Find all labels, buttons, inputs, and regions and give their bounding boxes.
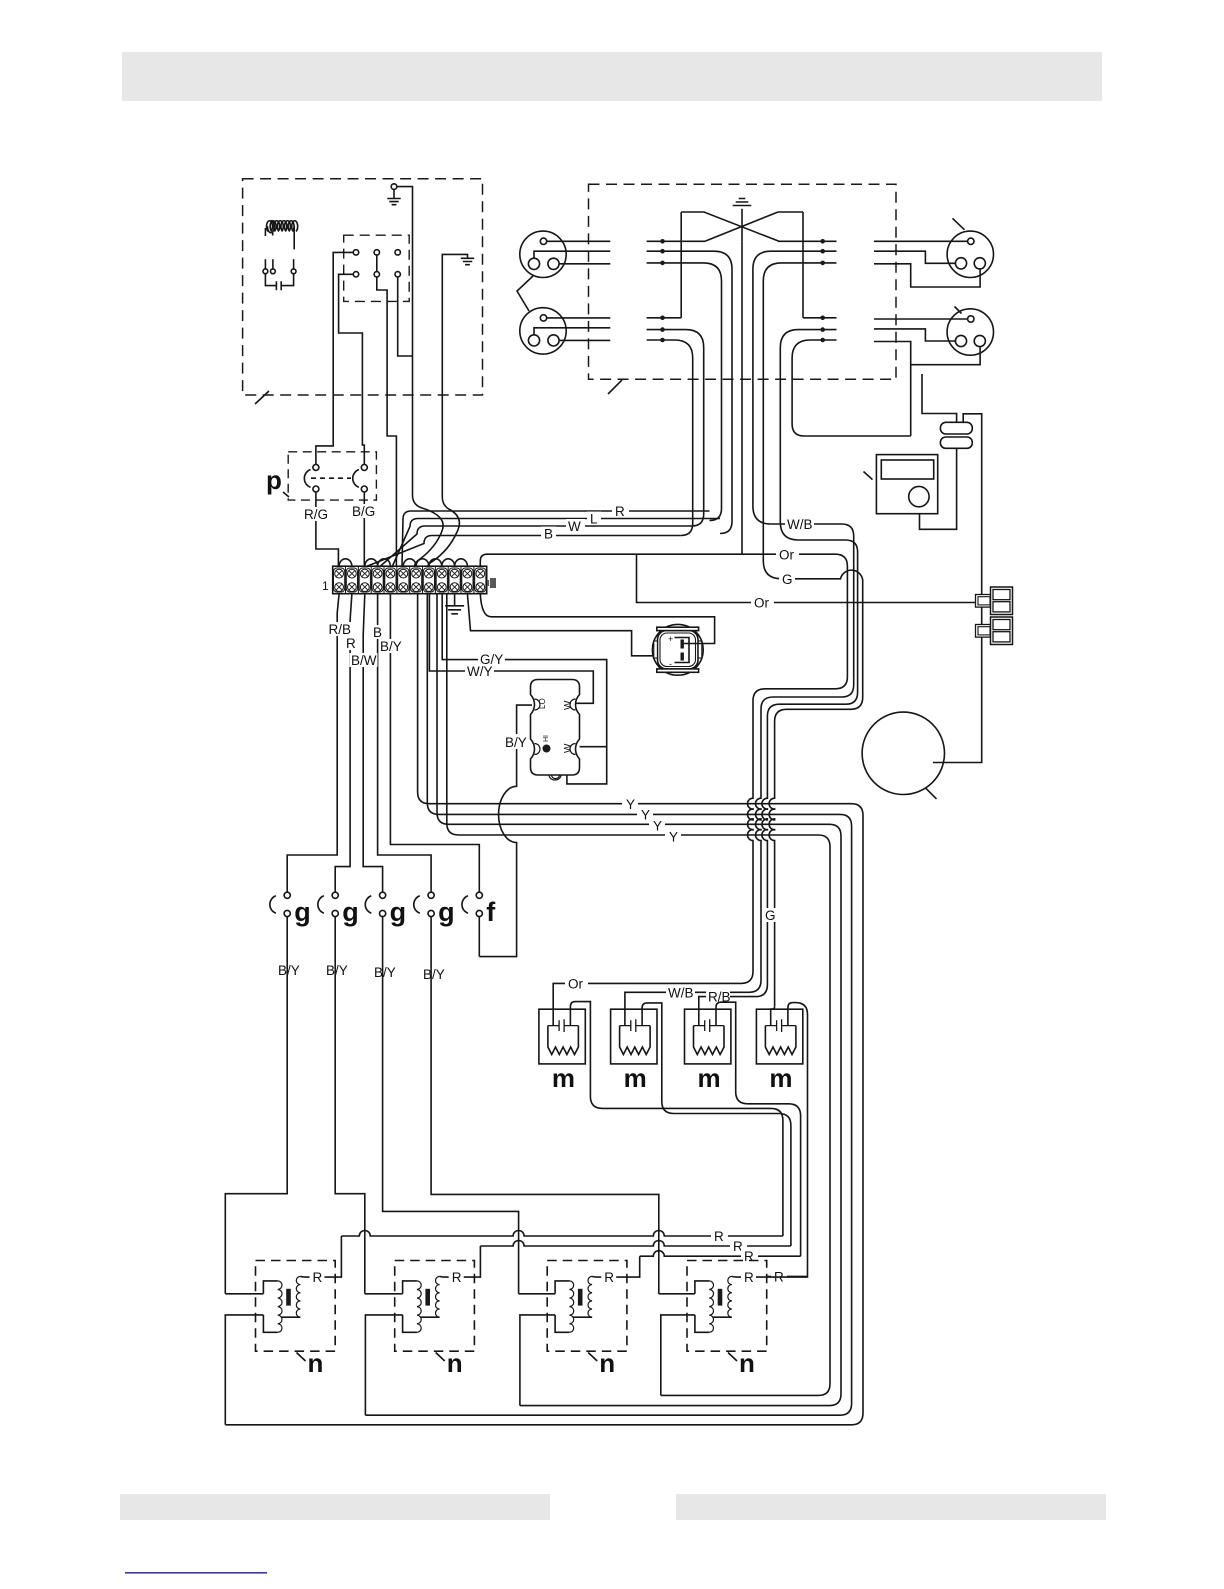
- relay coil right lead: [293, 226, 295, 249]
- wire W hook: [381, 526, 692, 566]
- wire W/B into m2: [625, 992, 749, 1025]
- wire Y1: [225, 594, 863, 1425]
- svg-text:+: +: [668, 634, 673, 644]
- wire G into m4: [771, 1006, 775, 1025]
- n1 R label: [310, 1270, 325, 1284]
- flasher pin lower-right: [570, 744, 576, 755]
- connector pin 6: [395, 272, 400, 277]
- svg-text:R: R: [615, 504, 625, 519]
- n2 lower entry to bottom rail: [365, 1315, 402, 1415]
- n3 secondary bottom lead: [573, 1316, 592, 1318]
- label B/Y flasher: [504, 734, 529, 749]
- pin right: [548, 335, 559, 346]
- wire sw2 down: [335, 917, 365, 1294]
- bowtie left vertical: [680, 212, 682, 318]
- n2 secondary bottom lead: [420, 1316, 439, 1318]
- tick p: [283, 492, 289, 497]
- junction dot: [660, 249, 665, 254]
- connector pin 3: [395, 250, 400, 255]
- wire t12 loop + Or feed to m1: [480, 554, 847, 983]
- wire right pin route: [874, 264, 980, 287]
- svg-text:G: G: [782, 572, 793, 587]
- svg-text:R: R: [604, 1270, 614, 1285]
- svg-text:n: n: [599, 1348, 615, 1378]
- igniter m3 cap: [694, 1019, 725, 1032]
- svg-text:Y: Y: [669, 830, 678, 845]
- wire p right to strip (B/G): [363, 492, 365, 566]
- terminal 9: [436, 568, 447, 592]
- pin right: [974, 258, 985, 269]
- wire row3 right curve: [763, 263, 836, 579]
- label R: [612, 504, 629, 517]
- n3 primary coil: [569, 1281, 573, 1332]
- wire sw1 down: [225, 917, 287, 1294]
- connector pin 1: [353, 250, 358, 255]
- svg-text:B: B: [373, 625, 382, 640]
- label R2: [730, 1239, 747, 1253]
- wire Or into m1: [553, 983, 741, 1025]
- wire into p right: [362, 395, 364, 464]
- n3 label tick: [588, 1353, 597, 1362]
- wire fuse1 to right rail and motor: [933, 414, 982, 763]
- strip jumper arc: [378, 559, 391, 566]
- svg-text:R/G: R/G: [304, 507, 328, 522]
- relay contact middle: [272, 259, 274, 269]
- igniter m1 box: [539, 1009, 585, 1064]
- label R/G: [303, 507, 330, 521]
- wire 412 down to strip: [413, 395, 444, 566]
- pin2-pin5 link: [376, 255, 378, 272]
- wire fuse2 to meter loop: [920, 448, 957, 529]
- pin right: [548, 258, 559, 269]
- n4 secondary coil: [728, 1276, 732, 1317]
- label W/Y: [465, 664, 494, 678]
- svg-text:m: m: [698, 1063, 721, 1093]
- ground right in box: [442, 254, 467, 395]
- battery jack side tabs: [654, 641, 658, 658]
- connector p dashed box: [288, 452, 376, 500]
- terminal 12: [475, 568, 486, 592]
- label W/B faint: [785, 517, 814, 531]
- wire left pin route: [534, 251, 610, 258]
- flasher pin upper-left: [535, 699, 541, 710]
- svg-text:Or: Or: [754, 596, 770, 611]
- wire flasher lower W tap: [580, 746, 607, 748]
- pin left: [955, 335, 966, 346]
- label Or dark: [751, 596, 774, 610]
- n3 R lead: [592, 1256, 640, 1277]
- svg-text:n: n: [739, 1348, 755, 1378]
- speaker connector circle: [520, 308, 566, 354]
- wire row6 right curve: [792, 340, 911, 436]
- label R2: [344, 636, 358, 650]
- wire pin4 feed: [339, 274, 363, 395]
- connector pin 5: [374, 272, 379, 277]
- wire row1 left: [647, 240, 682, 242]
- wire left pin route: [874, 329, 955, 341]
- label Or m1: [565, 977, 588, 991]
- wire left pin route: [534, 328, 610, 335]
- n4 secondary bottom lead: [713, 1316, 732, 1318]
- svg-text:B/Y: B/Y: [326, 963, 348, 978]
- svg-text:p: p: [266, 465, 282, 495]
- label G/Y: [478, 652, 505, 666]
- switch f: [462, 892, 496, 927]
- p dashed link: [311, 477, 351, 479]
- n1 lower entry to bottom rail: [225, 1315, 263, 1425]
- strip jumper arc: [416, 559, 429, 566]
- n1 upper entry: [225, 1293, 263, 1295]
- n4 primary leads: [695, 1281, 709, 1332]
- junction dot: [820, 239, 825, 244]
- n1 core bar l: [286, 1289, 291, 1306]
- igniter m2 cap: [620, 1019, 651, 1032]
- svg-text:Y: Y: [641, 808, 650, 823]
- svg-text:B/W: B/W: [351, 653, 377, 668]
- flasher label HI dot: [543, 745, 551, 753]
- wire m2 riser to R2: [642, 1003, 791, 1246]
- label B2: [371, 625, 384, 639]
- label B/W: [350, 653, 378, 667]
- wire row3 left curve down: [647, 263, 722, 521]
- wire fuse top link: [922, 374, 957, 422]
- svg-text:Or: Or: [779, 548, 795, 563]
- coil unit n3 dashed box: [547, 1261, 627, 1352]
- p left contact top: [313, 464, 319, 470]
- wire row2 right curve: [753, 251, 837, 524]
- connector tick: [955, 307, 962, 314]
- ground terminal circle top: [391, 184, 397, 190]
- speaker connector circle right: [947, 231, 993, 277]
- p right contact bottom: [361, 486, 367, 492]
- n2 R label: [449, 1270, 464, 1284]
- label Y3: [649, 818, 665, 832]
- wire L hook: [393, 519, 721, 567]
- wire jack plus loop: [480, 594, 714, 644]
- pin right: [974, 335, 985, 346]
- label R1: [711, 1229, 728, 1243]
- footer bar right: [676, 1494, 1106, 1520]
- label R3: [741, 1249, 758, 1263]
- n3 core bar l: [578, 1289, 583, 1306]
- terminal 10: [449, 568, 460, 592]
- battery jack terminal block: [675, 638, 690, 663]
- wire B strip to switch4: [378, 594, 432, 893]
- label B: [541, 527, 556, 540]
- wire row4 left: [647, 317, 682, 319]
- igniter m1 cup: [548, 1026, 579, 1055]
- svg-text:1: 1: [322, 579, 329, 593]
- motor tick: [926, 788, 937, 799]
- n1 label tick: [297, 1353, 306, 1362]
- bowtie right vertical: [802, 212, 804, 318]
- svg-text:W: W: [563, 743, 574, 753]
- relay capacitor: [265, 274, 293, 290]
- terminal 4: [372, 568, 383, 592]
- relay K coil: [267, 221, 298, 233]
- strip jumper arc: [403, 559, 416, 566]
- header bar: [122, 52, 1102, 101]
- terminal 2: [346, 568, 357, 592]
- terminal 3: [359, 568, 370, 592]
- svg-text:B/Y: B/Y: [278, 963, 300, 978]
- flasher body: [531, 680, 580, 776]
- pin left: [955, 258, 966, 269]
- svg-text:R: R: [744, 1249, 754, 1264]
- svg-text:f: f: [486, 897, 496, 927]
- n4 core bar l: [718, 1289, 723, 1306]
- wire Y2: [365, 594, 851, 1415]
- svg-text:B/Y: B/Y: [374, 965, 396, 980]
- n4 label tick: [728, 1353, 737, 1362]
- wire Y3: [437, 594, 841, 1406]
- svg-text:R: R: [714, 1229, 724, 1244]
- wire top pin out: [547, 240, 611, 242]
- igniter m3 cup: [694, 1026, 725, 1055]
- n2 R lead: [440, 1246, 481, 1277]
- connector pin 4: [353, 272, 358, 277]
- flasher pin upper-right: [570, 699, 576, 710]
- wire R4 n4 to m4: [767, 1275, 807, 1277]
- terminal plus bar: [681, 640, 684, 649]
- igniter m3 box: [685, 1009, 731, 1064]
- wire W/B bundle to m2: [749, 524, 854, 992]
- junction dot: [660, 338, 665, 343]
- label R/B: [328, 622, 352, 636]
- flasher bottom pin circle: [564, 768, 570, 774]
- strip jumper arc: [442, 559, 455, 566]
- strip right mark: [490, 578, 496, 588]
- svg-text:R: R: [452, 1270, 462, 1285]
- svg-text:Y: Y: [653, 819, 662, 834]
- n2 label tick: [436, 1353, 445, 1362]
- wire f down loop: [478, 917, 480, 957]
- flasher pin bottom: [549, 775, 561, 780]
- wire B hook: [368, 536, 681, 567]
- wire sw4 down: [431, 917, 659, 1294]
- meter tick: [864, 472, 873, 480]
- wire Y4: [447, 594, 830, 1396]
- battery jack bottom plate: [657, 669, 699, 672]
- hyperlink line bottom left: [125, 1572, 267, 1574]
- svg-text:W/B: W/B: [668, 986, 694, 1001]
- wire p left to strip (R/G): [316, 492, 339, 566]
- label R/B m3: [706, 990, 730, 1004]
- svg-text:W: W: [568, 519, 581, 534]
- wire row6 left curve down: [647, 340, 693, 536]
- crossover bowtie: [681, 212, 803, 241]
- wire R2 n2 to m2: [480, 1241, 791, 1247]
- n2 primary coil: [417, 1281, 421, 1332]
- terminal 5: [385, 568, 396, 592]
- label G faint: [779, 572, 795, 586]
- meter knob: [909, 486, 929, 506]
- svg-text:R: R: [744, 1270, 754, 1285]
- center vertical from bowtie: [741, 241, 743, 554]
- control unit dashed box: [243, 179, 483, 395]
- svg-text:n: n: [308, 1348, 324, 1378]
- svg-text:B/Y: B/Y: [505, 735, 527, 750]
- svg-text:g: g: [390, 897, 407, 927]
- terminal 8: [423, 568, 434, 592]
- terminal 6: [398, 568, 409, 592]
- strip jumper arc: [455, 559, 468, 566]
- callout tick junction box: [608, 380, 622, 394]
- connector tick: [953, 218, 965, 230]
- footer bar left: [120, 1494, 550, 1520]
- label Y4: [665, 829, 681, 843]
- fuse 2: [940, 437, 972, 448]
- wire R/B into m3: [699, 997, 756, 1026]
- p right arc: [353, 470, 359, 488]
- svg-text:Or: Or: [568, 977, 584, 992]
- battery jack top plate: [657, 627, 699, 630]
- switch g: [318, 892, 359, 927]
- n1 primary coil: [278, 1281, 282, 1332]
- n3 secondary coil: [588, 1276, 592, 1317]
- n4 upper entry: [659, 1293, 695, 1295]
- wire R hook: [402, 511, 710, 566]
- meter display: [881, 460, 933, 479]
- label B/Y left: [379, 639, 404, 653]
- ground symbol center: [733, 199, 752, 242]
- svg-text:R/B: R/B: [329, 622, 352, 637]
- coil unit n4 dashed box: [687, 1261, 767, 1352]
- junction dot: [820, 327, 825, 332]
- wire R/B strip to switch1: [287, 594, 339, 893]
- junction dashed box: [589, 184, 897, 379]
- label Y1: [622, 797, 638, 811]
- svg-text:G: G: [765, 908, 776, 923]
- svg-text:m: m: [769, 1063, 792, 1093]
- svg-text:Y: Y: [626, 797, 635, 812]
- switch g: [270, 892, 311, 927]
- battery jack outer circle: [652, 624, 703, 675]
- svg-text:B/Y: B/Y: [380, 639, 402, 654]
- junction dot: [660, 239, 665, 244]
- wire flasher LO pin to B-Y and f loop: [479, 705, 532, 957]
- label B/G: [351, 504, 378, 518]
- wire row5 left curve down: [647, 330, 704, 526]
- pin left: [528, 258, 539, 269]
- wire G/Y to flasher bottom: [442, 594, 607, 784]
- igniter m4 cup: [765, 1026, 796, 1055]
- svg-text:B/Y: B/Y: [423, 967, 445, 982]
- svg-text:B: B: [544, 527, 553, 542]
- n3 lower entry to bottom rail: [520, 1315, 555, 1406]
- wire W/Y to flasher W pin: [429, 594, 593, 704]
- svg-text:m: m: [624, 1063, 647, 1093]
- junction dot: [820, 249, 825, 254]
- strip jumper arc: [339, 559, 352, 566]
- fuse 1: [940, 422, 972, 434]
- motor circle: [862, 712, 944, 794]
- svg-text:W/B: W/B: [787, 517, 813, 532]
- wire R1 n1 to m1: [341, 1231, 783, 1237]
- relay coil left lead: [264, 228, 266, 236]
- igniter m4 box: [756, 1009, 802, 1064]
- wiring diagram: [225, 179, 1012, 1425]
- n3 R label: [601, 1270, 616, 1284]
- speaker connector circle: [520, 231, 566, 277]
- pin small top: [968, 238, 974, 244]
- svg-text:W/Y: W/Y: [467, 664, 493, 679]
- n4 R label: [741, 1270, 756, 1284]
- igniter m2 cup: [620, 1026, 651, 1055]
- junction dot: [660, 316, 665, 321]
- wire xlr to fuse area: [910, 365, 912, 436]
- svg-text:LO: LO: [538, 698, 547, 709]
- strip jumper arc: [365, 559, 378, 566]
- svg-text:m: m: [552, 1063, 575, 1093]
- pin left: [528, 335, 539, 346]
- pin small top: [540, 238, 546, 244]
- label Or faint: [776, 548, 799, 562]
- stub L join: [710, 519, 717, 521]
- n2 upper entry: [365, 1293, 403, 1295]
- meter box: [876, 455, 937, 514]
- wire R strip to switch2: [335, 594, 352, 893]
- n1 secondary bottom lead: [281, 1316, 300, 1318]
- wire right pin route: [874, 342, 980, 365]
- wire top pin out: [547, 317, 611, 319]
- n4 lower entry to bottom rail: [661, 1315, 695, 1396]
- ground below strip: [445, 594, 464, 614]
- coil unit n1 dashed box: [256, 1261, 336, 1352]
- wire into p left: [316, 395, 333, 464]
- n3 upper entry: [519, 1293, 556, 1295]
- wire row5 right curve: [780, 330, 836, 540]
- wire pin5 down: [377, 277, 387, 395]
- wire row2 left curve down: [647, 251, 732, 533]
- junction dot: [660, 261, 665, 266]
- wire 442 down to strip: [428, 395, 459, 566]
- terminal 7: [411, 568, 422, 592]
- wire top pin in: [874, 318, 968, 320]
- switch g: [414, 892, 455, 927]
- igniter m2 box: [611, 1009, 657, 1064]
- junction dot: [820, 316, 825, 321]
- label W/B m2: [666, 986, 695, 1000]
- label W: [566, 519, 585, 532]
- wire ground circle to right vertical: [397, 187, 413, 395]
- callout tick control box: [255, 391, 269, 404]
- switch g: [365, 892, 406, 927]
- wire t11 to jack minus: [467, 594, 679, 656]
- wire row4 right: [803, 317, 837, 319]
- wire B/Y strip to switch f: [390, 594, 479, 893]
- wire Or dark branch to fuse holder: [637, 554, 976, 602]
- terminal 11: [462, 568, 473, 592]
- p left arc: [304, 470, 310, 488]
- relay contact right: [293, 259, 295, 269]
- wire pin6 down: [398, 277, 413, 356]
- 6-pin connector dashed box: [344, 235, 410, 301]
- terminal minus bar: [681, 653, 684, 661]
- n3 primary leads: [555, 1281, 569, 1332]
- wire m4 riser to R4: [788, 1003, 808, 1277]
- terminal strip TB: [333, 566, 487, 594]
- wire m3 riser to R3: [716, 1002, 801, 1256]
- relay coil tail: [272, 232, 274, 236]
- p left contact bottom: [313, 486, 319, 492]
- wire R/B bundle to m3: [755, 540, 857, 997]
- label G dark: [762, 908, 778, 922]
- fuse holder: [976, 587, 1013, 615]
- svg-text:g: g: [294, 897, 311, 927]
- label Y2: [637, 807, 653, 821]
- junction dot: [820, 338, 825, 343]
